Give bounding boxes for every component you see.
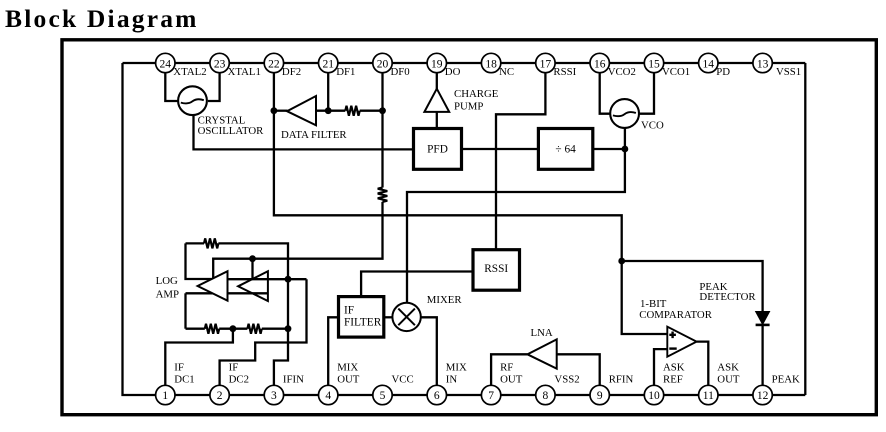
VCO circle	[610, 99, 639, 128]
svg-text:CHARGE: CHARGE	[454, 88, 499, 100]
svg-text:18: 18	[485, 58, 497, 70]
svg-text:23: 23	[214, 58, 226, 70]
wire pin3 staircase to log amp bottom node	[274, 329, 288, 386]
svg-text:DC2: DC2	[229, 374, 249, 386]
divider box /64	[538, 129, 592, 170]
svg-text:7: 7	[488, 390, 494, 402]
wire crystal oscillator to PFD input	[194, 115, 414, 149]
wire log amp bottom middle segment	[219, 328, 247, 330]
wire pin20 column below resistor to offset bus	[213, 202, 382, 279]
crystal oscillator wave	[181, 99, 204, 103]
wire log amp top feedback left segment	[186, 242, 205, 244]
svg-text:DC1: DC1	[174, 374, 194, 386]
junction log amp bottom pin1 tap	[230, 325, 237, 332]
op-amp U3 1-bit comparator	[667, 327, 696, 357]
svg-text:20: 20	[377, 58, 389, 70]
wire log amp bottom right segment	[262, 328, 288, 330]
pin 22	[264, 53, 283, 72]
svg-text:÷ 64: ÷ 64	[555, 143, 576, 155]
svg-text:REF: REF	[663, 374, 683, 386]
resistor R-DF0 (vertical)	[378, 188, 388, 202]
svg-text:24: 24	[160, 58, 172, 70]
wire data filter output stub	[274, 110, 288, 112]
wire pin15 to VCO	[639, 73, 654, 114]
junction data filter output	[271, 107, 278, 114]
svg-text:VCO: VCO	[641, 120, 664, 132]
svg-text:MIX: MIX	[446, 361, 467, 373]
svg-text:6: 6	[434, 390, 440, 402]
pin 8	[536, 385, 555, 404]
svg-text:IFIN: IFIN	[283, 374, 304, 386]
pin 5	[373, 385, 392, 404]
svg-text:XTAL1: XTAL1	[228, 66, 261, 78]
wire pin23 to crystal oscillator	[208, 73, 220, 101]
svg-text:IF: IF	[229, 361, 239, 373]
wire log amp lower differential line	[186, 292, 268, 294]
svg-text:21: 21	[322, 58, 334, 70]
svg-text:DF2: DF2	[282, 66, 301, 78]
svg-text:IF: IF	[174, 361, 184, 373]
wire right side rail from pin13 to pin12	[804, 63, 806, 395]
mixer circle	[392, 303, 420, 331]
svg-text:4: 4	[325, 390, 331, 402]
pin 18	[481, 53, 500, 72]
svg-text:OUT: OUT	[717, 374, 740, 386]
resistor R-FB (log amp top)	[204, 238, 218, 248]
wire pin16 to VCO	[600, 73, 611, 114]
pin 13	[753, 53, 772, 72]
wire divider output to VCO node	[593, 148, 625, 150]
wire offset stub into first log amp stage	[186, 243, 214, 279]
wire log amp bottom left segment	[186, 328, 205, 330]
wire comparator feed node to peak detector	[622, 261, 763, 312]
svg-text:DATA FILTER: DATA FILTER	[281, 129, 347, 141]
pin 15	[644, 53, 663, 72]
border frame	[62, 40, 876, 415]
wire peak detector to pin12	[761, 324, 763, 385]
svg-text:IN: IN	[446, 374, 458, 386]
pin 11	[699, 385, 718, 404]
pin 21	[319, 53, 338, 72]
svg-text:12: 12	[757, 390, 769, 402]
wire pin17 to RSSI block	[496, 73, 545, 250]
resistor R-DF (data filter)	[345, 106, 359, 116]
wire mixer to pin6	[421, 317, 437, 385]
pin 2	[210, 385, 229, 404]
svg-text:LNA: LNA	[531, 327, 553, 339]
pin 19	[427, 53, 446, 72]
wire log amp top feedback right segment	[218, 243, 288, 328]
mixer cross	[398, 309, 415, 326]
svg-text:22: 22	[268, 58, 280, 70]
wire IF filter to RSSI	[361, 272, 473, 297]
RSSI box	[473, 250, 520, 291]
svg-text:LOG: LOG	[156, 275, 178, 287]
diode cathode bar	[756, 324, 770, 327]
svg-text:DO: DO	[445, 66, 461, 78]
wire pin4 to IF filter	[328, 317, 338, 385]
svg-text:14: 14	[703, 58, 715, 70]
wire charge pump to PFD	[436, 112, 438, 129]
pin 7	[481, 385, 500, 404]
junction pin21 on data filter line	[325, 107, 332, 114]
wire resistor to pin20 column	[360, 110, 383, 112]
junction log amp upper line	[285, 276, 292, 283]
wire comparator output to pin11	[697, 342, 709, 386]
svg-text:OSCILLATOR: OSCILLATOR	[198, 125, 265, 137]
IF filter box	[339, 297, 384, 338]
svg-text:1: 1	[162, 390, 168, 402]
svg-text:ASK: ASK	[717, 361, 739, 373]
wire left side rail from pin24 column to pin1	[123, 63, 166, 395]
svg-text:19: 19	[431, 58, 443, 70]
svg-text:RSSI: RSSI	[553, 66, 576, 78]
svg-text:PEAK: PEAK	[772, 374, 800, 386]
pin 23	[210, 53, 229, 72]
wire bottom pin bus	[156, 394, 806, 396]
svg-text:PUMP: PUMP	[454, 101, 483, 113]
crystal oscillator circle	[178, 86, 207, 115]
VCO wave	[613, 112, 636, 116]
pin 16	[590, 53, 609, 72]
pin 4	[319, 385, 338, 404]
pin 17	[536, 53, 555, 72]
pin 10	[644, 385, 663, 404]
pin 20	[373, 53, 392, 72]
pin 3	[264, 385, 283, 404]
svg-text:OUT: OUT	[337, 374, 360, 386]
svg-text:15: 15	[648, 58, 660, 70]
svg-text:VCO1: VCO1	[662, 66, 690, 78]
svg-text:RFIN: RFIN	[609, 374, 634, 386]
wire data filter input segment	[316, 110, 345, 112]
comparator minus symbol	[669, 347, 676, 349]
svg-text:DETECTOR: DETECTOR	[699, 291, 756, 303]
junction log amp bottom pin3 tap	[285, 325, 292, 332]
PFD box	[414, 129, 462, 170]
pin 6	[427, 385, 446, 404]
wire VCO node down and LO feed to mixer	[407, 128, 625, 303]
svg-text:17: 17	[540, 58, 552, 70]
wire log amp lower left vertical	[184, 293, 186, 328]
charge pump triangle	[424, 89, 449, 112]
svg-text:MIXER: MIXER	[427, 294, 463, 306]
svg-text:PFD: PFD	[427, 143, 448, 155]
svg-text:RF: RF	[500, 361, 513, 373]
wire pin1 staircase to log amp bottom	[165, 329, 233, 386]
wire pin24 to crystal oscillator	[165, 73, 179, 101]
svg-text:IF: IF	[344, 304, 354, 316]
wire pin2 staircase to log amp upper line	[220, 279, 307, 385]
svg-text:16: 16	[594, 58, 606, 70]
junction comparator feed node	[618, 258, 625, 265]
svg-text:VSS1: VSS1	[776, 66, 801, 78]
pin 24	[156, 53, 175, 72]
svg-text:Block Diagram: Block Diagram	[5, 4, 199, 33]
svg-text:3: 3	[271, 390, 277, 402]
svg-text:PD: PD	[716, 66, 730, 78]
svg-text:11: 11	[703, 390, 714, 402]
svg-text:RSSI: RSSI	[484, 263, 508, 275]
op-amp A1 log amp first stage	[198, 271, 228, 301]
svg-text:13: 13	[757, 58, 769, 70]
pin 12	[753, 385, 772, 404]
junction divider VCO node	[622, 146, 629, 153]
svg-text:9: 9	[597, 390, 603, 402]
resistor R-DC1 (log amp bottom left)	[205, 324, 219, 334]
junction pin20 on data filter line	[379, 107, 386, 114]
svg-text:MIX: MIX	[337, 361, 358, 373]
diode peak detector	[756, 312, 770, 325]
junction offset bus tap	[249, 255, 256, 262]
op-amp A2 log amp second stage	[238, 271, 268, 301]
svg-text:AMP: AMP	[156, 288, 179, 300]
wire top pin bus	[123, 62, 806, 64]
svg-text:5: 5	[380, 390, 386, 402]
svg-text:COMPARATOR: COMPARATOR	[639, 309, 712, 321]
wire pin10 to comparator minus input	[654, 349, 667, 385]
wire pin21 to data filter line	[327, 73, 329, 111]
pin 14	[699, 53, 718, 72]
wire pin22 column down to comparator feed	[274, 73, 622, 261]
svg-text:NC: NC	[499, 66, 514, 78]
svg-text:VCC: VCC	[392, 374, 414, 386]
svg-text:VSS2: VSS2	[554, 374, 579, 386]
svg-text:XTAL2: XTAL2	[173, 66, 206, 78]
wire IF filter to mixer	[384, 316, 393, 318]
wire pin20 column with vertical resistor	[381, 73, 383, 188]
svg-text:DF1: DF1	[336, 66, 355, 78]
pin 1	[156, 385, 175, 404]
wire pin19 to charge pump	[436, 73, 438, 89]
pin 9	[590, 385, 609, 404]
svg-text:VCO2: VCO2	[608, 66, 636, 78]
svg-text:2: 2	[217, 390, 223, 402]
wire offset stub into second log amp stage	[251, 259, 253, 280]
wire PFD to divider	[462, 148, 539, 150]
svg-text:OUT: OUT	[500, 374, 523, 386]
resistor R-DC2 (log amp bottom right)	[247, 324, 261, 334]
comparator plus symbol	[669, 332, 676, 339]
svg-text:FILTER: FILTER	[344, 316, 382, 328]
svg-text:ASK: ASK	[663, 361, 685, 373]
wire LNA output to pin9	[557, 354, 600, 385]
op-amp U2 data filter	[287, 96, 316, 125]
svg-text:DF0: DF0	[391, 66, 410, 78]
amplifier LNA	[527, 339, 556, 368]
wire comparator plus input	[622, 261, 668, 334]
svg-text:10: 10	[648, 390, 660, 402]
wire pin7 to LNA input	[491, 354, 527, 385]
wire log amp upper differential line W3	[228, 278, 307, 280]
svg-text:8: 8	[543, 390, 549, 402]
